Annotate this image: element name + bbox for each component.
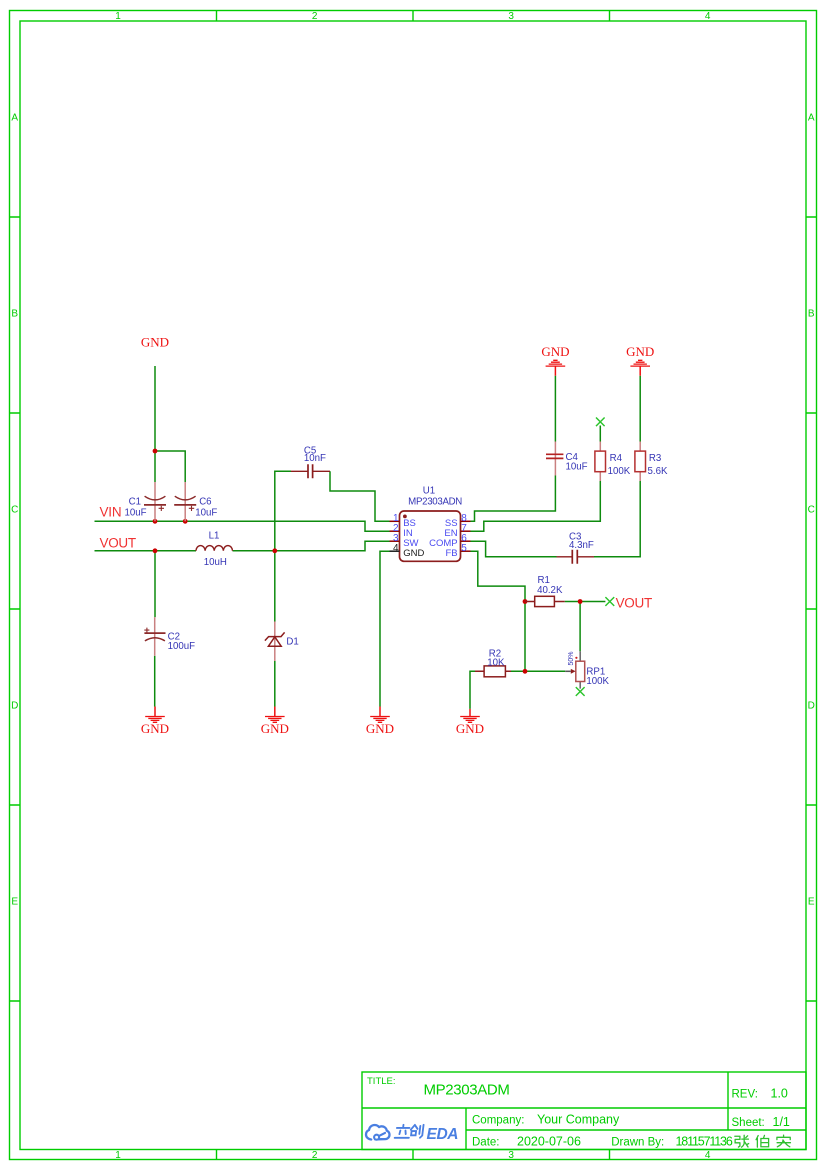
svg-text:2: 2 bbox=[312, 1150, 318, 1161]
resistor R2 bbox=[475, 649, 511, 677]
wire C4 to ground flag bbox=[554, 376, 556, 442]
wire COMP to C3 bbox=[471, 541, 557, 557]
wire R1 node down to RP1 bbox=[579, 602, 581, 652]
pin 4 GND bbox=[390, 543, 425, 559]
svg-text:R3: R3 bbox=[649, 453, 661, 464]
svg-text:1: 1 bbox=[115, 1150, 121, 1161]
svg-text:VIN: VIN bbox=[100, 505, 122, 520]
svg-text:C: C bbox=[808, 505, 815, 516]
wire SS to C4 bbox=[471, 476, 556, 522]
svg-text:VOUT: VOUT bbox=[616, 595, 652, 610]
svg-text:1: 1 bbox=[115, 11, 121, 22]
svg-text:C1: C1 bbox=[129, 497, 141, 508]
capacitor C6 bbox=[174, 482, 217, 521]
capacitor C1 bbox=[125, 482, 167, 521]
pin 2 IN bbox=[390, 523, 413, 539]
svg-text:4: 4 bbox=[705, 11, 711, 22]
ground R2 bbox=[456, 709, 484, 736]
junction D1/C5 on VOUT rail bbox=[272, 548, 277, 553]
ground C2 bbox=[141, 707, 169, 736]
svg-text:A: A bbox=[808, 113, 815, 124]
svg-text:EDA: EDA bbox=[427, 1126, 459, 1143]
wire VIN rail bbox=[95, 521, 390, 531]
pin 5 FB bbox=[445, 543, 470, 559]
wire R4 top to X flag bbox=[599, 426, 601, 442]
svg-text:3: 3 bbox=[508, 11, 514, 22]
junction R2 right / FB column bbox=[523, 669, 528, 674]
svg-text:1/1: 1/1 bbox=[773, 1115, 790, 1129]
net flag VOUT right bbox=[605, 595, 652, 610]
wire C2 to ground bbox=[154, 656, 156, 707]
logo text 立创 (vector CJK) bbox=[395, 1125, 424, 1138]
svg-text:FB: FB bbox=[445, 548, 457, 559]
wire C3 to R3 bbox=[594, 481, 640, 557]
junction FB node at R1 left bbox=[523, 599, 528, 604]
svg-text:B: B bbox=[808, 309, 815, 320]
ground flag top (R3) bbox=[626, 344, 654, 376]
svg-text:GND: GND bbox=[541, 344, 569, 359]
svg-text:4: 4 bbox=[705, 1150, 711, 1161]
svg-text:U1: U1 bbox=[423, 486, 435, 497]
svg-text:C6: C6 bbox=[199, 497, 211, 508]
svg-text:TITLE:: TITLE: bbox=[367, 1076, 396, 1087]
inductor L1 bbox=[196, 531, 232, 569]
svg-text:Sheet:: Sheet: bbox=[732, 1117, 765, 1129]
no-connect flag X at RP1 bottom bbox=[576, 687, 585, 696]
svg-text:VOUT: VOUT bbox=[100, 535, 136, 550]
svg-text:10uH: 10uH bbox=[204, 557, 227, 568]
svg-text:GND: GND bbox=[141, 335, 169, 350]
svg-text:2020-07-06: 2020-07-06 bbox=[517, 1135, 581, 1149]
potentiometer RP1 bbox=[565, 651, 609, 688]
svg-text:B: B bbox=[11, 309, 18, 320]
svg-text:1811571136: 1811571136 bbox=[676, 1135, 733, 1149]
capacitor C2 bbox=[144, 617, 195, 656]
wire R2 right to RP1 wiper bbox=[511, 670, 565, 672]
svg-text:Date:: Date: bbox=[472, 1137, 500, 1149]
logo EasyEDA bbox=[366, 1125, 390, 1140]
svg-text:REV:: REV: bbox=[732, 1088, 758, 1100]
svg-text:D: D bbox=[808, 701, 815, 712]
svg-text:100uF: 100uF bbox=[168, 641, 196, 652]
svg-text:MP2303ADN: MP2303ADN bbox=[408, 497, 462, 508]
drawn-by name 张伯安 (vector CJK) bbox=[735, 1135, 791, 1147]
resistor R4 bbox=[595, 442, 631, 482]
pin 6 COMP bbox=[429, 533, 470, 549]
ground D1 bbox=[261, 707, 289, 736]
IC U1 MP2303ADN body bbox=[400, 486, 463, 562]
wire D1 to ground bbox=[274, 661, 276, 707]
wire C5 to pin1 bbox=[330, 471, 390, 521]
junction R1 right / RP1 top bbox=[578, 599, 583, 604]
pin 7 EN bbox=[444, 523, 470, 539]
svg-text:Your Company: Your Company bbox=[537, 1113, 620, 1127]
capacitor C5 bbox=[291, 445, 330, 478]
svg-text:L1: L1 bbox=[209, 531, 220, 542]
svg-text:GND: GND bbox=[456, 721, 484, 736]
wire R2 left to ground bbox=[470, 671, 475, 709]
svg-text:100K: 100K bbox=[586, 676, 609, 687]
svg-text:5: 5 bbox=[461, 543, 467, 554]
wire VOUT rail bbox=[95, 541, 390, 551]
junction C6 on VIN rail bbox=[183, 519, 188, 524]
svg-text:100K: 100K bbox=[608, 466, 631, 477]
svg-text:C: C bbox=[11, 505, 18, 516]
svg-text:10uF: 10uF bbox=[195, 507, 217, 518]
svg-text:D: D bbox=[11, 701, 18, 712]
ground U1 pin4 bbox=[366, 707, 394, 736]
svg-text:10uF: 10uF bbox=[125, 507, 147, 518]
svg-text:50%: 50% bbox=[568, 651, 575, 665]
svg-text:10nF: 10nF bbox=[304, 453, 326, 464]
pin 3 SW bbox=[390, 533, 419, 549]
svg-text:Company:: Company: bbox=[472, 1115, 524, 1127]
wire pin4 to ground bbox=[380, 551, 390, 706]
svg-text:5.6K: 5.6K bbox=[648, 466, 668, 477]
wire EN to R4 bbox=[471, 481, 601, 531]
svg-text:GND: GND bbox=[626, 344, 654, 359]
svg-text:D1: D1 bbox=[286, 637, 298, 648]
wire C1/C6 top link bbox=[155, 451, 185, 482]
svg-text:2: 2 bbox=[312, 11, 318, 22]
pin 8 SS bbox=[445, 513, 471, 529]
capacitor C3 bbox=[557, 531, 595, 564]
wire C5 left branch bbox=[275, 471, 291, 551]
wire R3 top to ground flag bbox=[639, 376, 641, 442]
svg-text:GND: GND bbox=[366, 721, 394, 736]
svg-text:4: 4 bbox=[393, 543, 399, 554]
wire FB to R1 bbox=[471, 551, 526, 601]
svg-text:10uF: 10uF bbox=[566, 462, 588, 473]
svg-text:4.3nF: 4.3nF bbox=[569, 540, 594, 551]
wire FB node down to R2 bbox=[524, 602, 526, 672]
junction C1 on VIN rail bbox=[153, 519, 158, 524]
TITLE BLOCK bbox=[362, 1072, 806, 1150]
svg-text:40.2K: 40.2K bbox=[537, 585, 563, 596]
svg-text:GND: GND bbox=[403, 548, 424, 559]
capacitor C4 bbox=[546, 442, 588, 476]
wire D1 branch bbox=[274, 551, 276, 622]
svg-text:R4: R4 bbox=[610, 453, 623, 464]
svg-text:MP2303ADM: MP2303ADM bbox=[424, 1081, 510, 1098]
wire C2 branch bbox=[154, 551, 156, 617]
junction C2 on VOUT rail bbox=[153, 548, 158, 553]
diode D1 bbox=[265, 622, 299, 662]
svg-text:1.0: 1.0 bbox=[771, 1086, 788, 1100]
svg-text:10K: 10K bbox=[487, 657, 505, 668]
no-connect flag X at R4 top bbox=[596, 418, 605, 427]
svg-text:Drawn By:: Drawn By: bbox=[611, 1137, 664, 1149]
pin 1 BS bbox=[390, 513, 416, 529]
svg-text:3: 3 bbox=[508, 1150, 514, 1161]
ground flag top (C4) bbox=[541, 344, 569, 376]
resistor R3 bbox=[635, 442, 668, 482]
resistor R1 bbox=[525, 575, 565, 607]
svg-text:GND: GND bbox=[261, 721, 289, 736]
wire GND1 vertical bbox=[154, 366, 156, 451]
junction at C1 top / GND branch bbox=[153, 449, 158, 454]
wire R1 to VOUT flag bbox=[565, 601, 606, 603]
svg-text:E: E bbox=[808, 897, 815, 908]
svg-text:GND: GND bbox=[141, 721, 169, 736]
svg-text:E: E bbox=[11, 897, 18, 908]
svg-text:A: A bbox=[11, 113, 18, 124]
